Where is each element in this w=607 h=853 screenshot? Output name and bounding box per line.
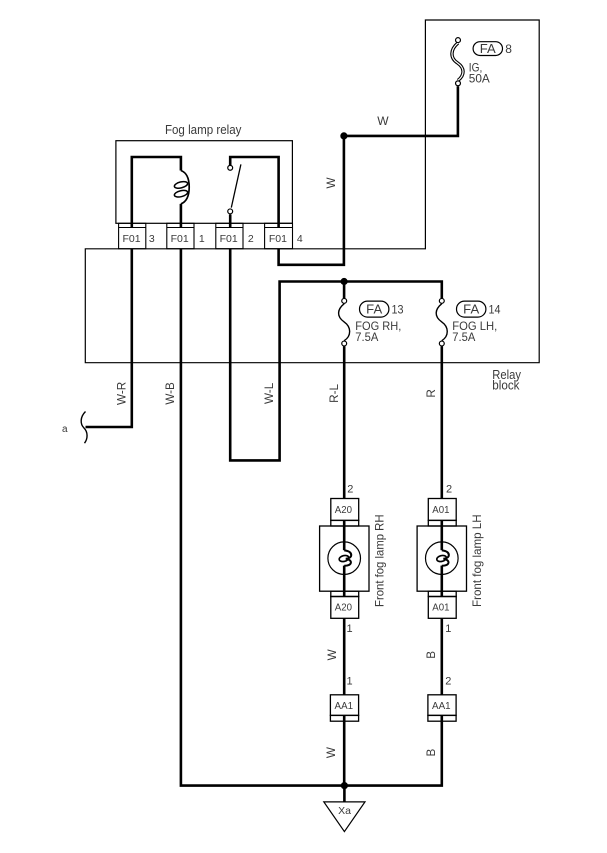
svg-text:R-L: R-L <box>328 383 341 402</box>
svg-text:1: 1 <box>199 233 205 245</box>
svg-text:R: R <box>425 389 438 397</box>
svg-text:Fog lamp relay: Fog lamp relay <box>165 122 242 137</box>
svg-text:2: 2 <box>446 483 452 495</box>
svg-text:F01: F01 <box>269 233 287 245</box>
svg-text:50A: 50A <box>469 71 490 85</box>
svg-text:A20: A20 <box>335 601 352 613</box>
svg-text:W-L: W-L <box>263 382 276 404</box>
svg-text:FA: FA <box>366 302 383 316</box>
svg-text:7.5A: 7.5A <box>452 330 475 344</box>
svg-text:Front fog lamp LH: Front fog lamp LH <box>470 514 484 607</box>
svg-text:AA1: AA1 <box>432 700 451 712</box>
svg-text:FA: FA <box>463 302 480 316</box>
svg-text:1: 1 <box>347 623 353 635</box>
svg-text:7.5A: 7.5A <box>355 330 378 344</box>
svg-text:F01: F01 <box>122 233 140 245</box>
svg-text:1: 1 <box>445 623 451 635</box>
svg-text:1: 1 <box>347 676 353 688</box>
svg-text:8: 8 <box>505 42 512 56</box>
svg-text:W-R: W-R <box>115 382 128 405</box>
svg-text:AA1: AA1 <box>335 700 354 712</box>
svg-text:B: B <box>425 651 438 659</box>
svg-text:a: a <box>62 424 68 435</box>
svg-text:A01: A01 <box>432 601 449 613</box>
svg-text:W-B: W-B <box>164 382 177 405</box>
svg-text:A20: A20 <box>335 504 352 516</box>
svg-text:3: 3 <box>149 233 155 245</box>
svg-text:2: 2 <box>347 483 353 495</box>
svg-text:Front fog lamp RH: Front fog lamp RH <box>373 514 387 607</box>
svg-text:F01: F01 <box>220 233 238 245</box>
svg-text:2: 2 <box>445 676 451 688</box>
svg-text:14: 14 <box>489 302 501 316</box>
svg-text:W: W <box>325 747 338 758</box>
svg-text:W: W <box>325 177 338 188</box>
svg-text:A01: A01 <box>432 504 449 516</box>
svg-text:W: W <box>326 649 339 660</box>
svg-text:4: 4 <box>297 233 303 245</box>
svg-text:13: 13 <box>392 302 404 316</box>
svg-text:2: 2 <box>248 233 254 245</box>
svg-text:F01: F01 <box>171 233 189 245</box>
svg-text:B: B <box>425 748 438 756</box>
svg-text:block: block <box>492 378 520 392</box>
svg-text:W: W <box>377 114 389 128</box>
svg-text:FA: FA <box>480 42 497 56</box>
svg-text:Xa: Xa <box>338 805 351 817</box>
